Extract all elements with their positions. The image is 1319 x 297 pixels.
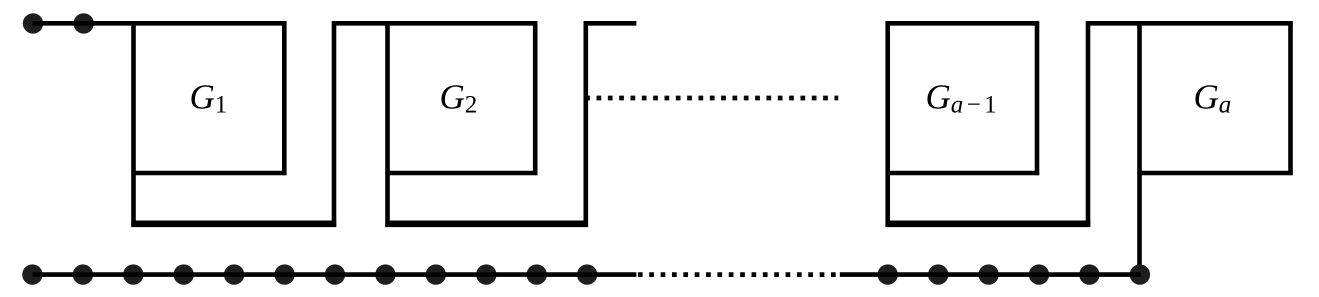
bottom path vertices (left group) xyxy=(22,264,597,284)
box G1 right edge xyxy=(282,21,287,175)
wire top stub T3 after G2 xyxy=(584,21,637,26)
box G1 left edge (extends to loop bottom) xyxy=(131,21,136,227)
vertex b17 xyxy=(1079,264,1099,284)
wire loop L1 bottom under G1 xyxy=(131,221,336,228)
box G2 right edge xyxy=(533,21,538,175)
box G1 bottom edge xyxy=(131,171,286,176)
wire top line T2 (over box G2) xyxy=(332,21,537,26)
wire top line T4 (over box Ga-1) xyxy=(886,21,1040,26)
box Ga-1 right edge xyxy=(1035,21,1040,175)
vertex b14 xyxy=(928,264,948,284)
vertex b3 xyxy=(123,264,143,284)
bottom path solid segment (left) xyxy=(32,272,636,277)
wire loop L3 riser xyxy=(1086,21,1091,227)
vertex b5 xyxy=(224,264,244,284)
vertex b7 xyxy=(325,264,345,284)
wire loop L2 bottom under G2 xyxy=(385,221,588,228)
vertex b6 xyxy=(274,264,294,284)
box Ga right edge xyxy=(1288,21,1293,175)
vertex u2 (second top dot) xyxy=(74,13,94,33)
wire top line T5 (over box Ga) xyxy=(1086,21,1293,26)
box Ga bottom edge xyxy=(1137,171,1292,176)
vertex b8 xyxy=(375,264,395,284)
bottom path solid segment (right) xyxy=(840,272,1141,277)
dotted continuation (middle ellipsis) xyxy=(585,96,838,101)
wire loop L3 bottom under Ga-1 xyxy=(886,221,1091,228)
wire top line T1 (entry path over box G1) xyxy=(32,21,286,26)
box Ga-1 bottom edge xyxy=(886,171,1040,176)
svg-text:G2: G2 xyxy=(440,77,478,118)
vertex b2 xyxy=(73,264,93,284)
box G2 bottom edge xyxy=(385,171,537,176)
vertex b15 xyxy=(978,264,998,284)
svg-text:Ga: Ga xyxy=(1194,77,1232,118)
vertex b11 xyxy=(527,264,547,284)
wire loop L2 riser xyxy=(583,21,588,227)
box Ga left edge (drops to bottom path) xyxy=(1137,21,1142,274)
box G2 left edge (extends to loop bottom) xyxy=(385,21,390,227)
vertex b12 xyxy=(577,264,597,284)
vertex b13 xyxy=(878,264,898,284)
bottom path dotted segment (ellipsis) xyxy=(638,272,838,277)
svg-text:G1: G1 xyxy=(190,77,228,118)
box Ga-1 left edge (extends to loop bottom) xyxy=(885,21,890,227)
vertex b9 xyxy=(426,264,446,284)
bottom path vertices (right group) xyxy=(878,264,1151,284)
svg-text:Ga−1: Ga−1 xyxy=(926,77,1001,118)
vertex b10 xyxy=(476,264,496,284)
vertex b1 xyxy=(22,264,42,284)
vertex b18 xyxy=(1130,264,1150,284)
wire loop L1 riser xyxy=(332,21,337,227)
vertex b4 xyxy=(174,264,194,284)
vertex u1 (top-left dot) xyxy=(23,13,43,33)
vertex b16 xyxy=(1029,264,1049,284)
